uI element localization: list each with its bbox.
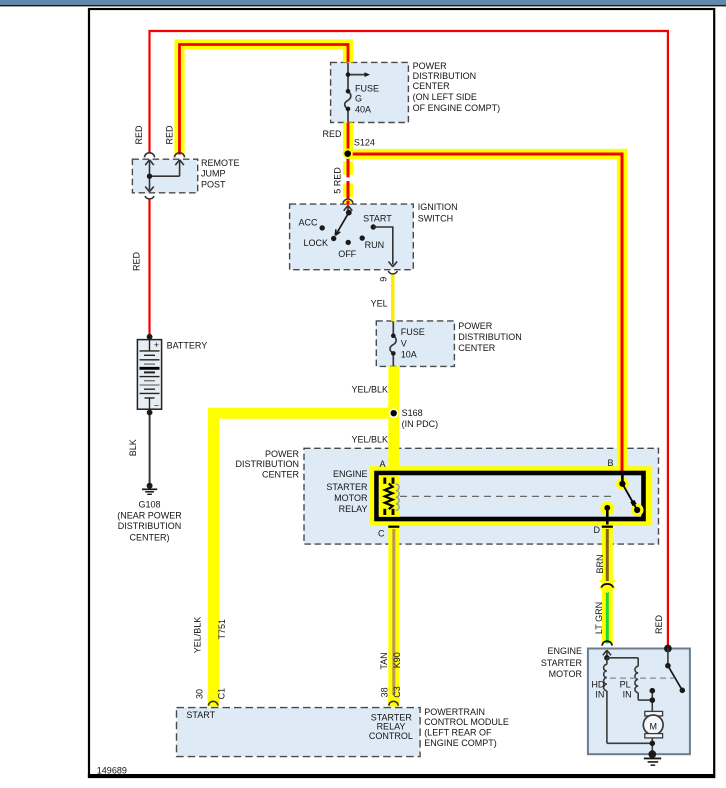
svg-text:HD: HD — [591, 680, 604, 690]
ignition switch connector entry — [343, 199, 353, 204]
label power distribution center (relay) — [235, 449, 299, 480]
power distribution center box (fuse G) — [331, 62, 409, 122]
svg-text:CENTER: CENTER — [413, 81, 451, 91]
wire RED highlighted: S124 across and down to relay pin B — [348, 154, 623, 467]
ignition switch START output wire — [373, 227, 393, 265]
svg-text:BLK: BLK — [128, 439, 138, 456]
svg-text:FUSE: FUSE — [355, 84, 379, 94]
svg-text:C3: C3 — [392, 686, 402, 698]
starter motor solenoid switch — [664, 645, 672, 653]
svg-text:G: G — [355, 94, 362, 104]
svg-text:RED: RED — [164, 125, 174, 145]
starter motor junction dots — [651, 691, 653, 712]
svg-text:ACC: ACC — [298, 218, 318, 228]
svg-text:IN: IN — [595, 690, 604, 700]
svg-text:+: + — [154, 340, 159, 350]
label fuse V 10A — [401, 327, 425, 359]
connector arc at PCM pin 38 — [387, 695, 400, 707]
svg-text:POWER: POWER — [413, 61, 448, 71]
svg-text:CENTER: CENTER — [458, 343, 496, 353]
starter motor internal dashed line — [610, 677, 674, 679]
svg-text:40A: 40A — [355, 104, 371, 114]
label powertrain control module — [424, 707, 509, 748]
svg-text:CENTER: CENTER — [262, 470, 300, 480]
top toolbar bar — [0, 0, 726, 6]
relay coil winding — [385, 478, 393, 516]
ignition switch connector exit pin 9 — [388, 271, 397, 274]
svg-text:5 RED: 5 RED — [332, 167, 342, 194]
wire BLK: battery to ground G108 — [149, 413, 151, 486]
label ground G108 — [117, 500, 182, 543]
engine starter motor relay body — [377, 473, 644, 519]
power distribution center box (fuse V) — [376, 321, 454, 367]
motor M — [645, 711, 663, 716]
ground G108 — [147, 483, 153, 489]
label power distribution center (fuse V) — [458, 321, 522, 353]
label power distribution center (fuse G) — [413, 61, 501, 113]
wire RED thin: remote jump post to starter motor switch (top run) — [150, 31, 668, 649]
label fuse G 40A — [355, 84, 379, 115]
svg-text:149689: 149689 — [97, 766, 127, 776]
starter motor ground — [648, 750, 656, 758]
svg-text:10A: 10A — [401, 349, 417, 359]
connector arc at starter motor entry — [602, 641, 612, 646]
svg-text:START: START — [363, 213, 392, 223]
svg-text:YEL/BLK: YEL/BLK — [351, 385, 388, 395]
svg-text:T751: T751 — [217, 619, 227, 640]
svg-text:ENGINE COMPT): ENGINE COMPT) — [424, 738, 497, 748]
svg-text:REMOTE: REMOTE — [201, 158, 240, 168]
svg-text:TAN: TAN — [379, 652, 389, 669]
ignition switch wiper arm — [346, 210, 352, 216]
relay internal dashed line — [400, 495, 612, 497]
svg-text:S124: S124 — [354, 138, 375, 148]
svg-text:(ON LEFT SIDE: (ON LEFT SIDE — [413, 92, 477, 102]
svg-text:C: C — [378, 529, 385, 539]
svg-text:OFF: OFF — [338, 249, 356, 259]
svg-text:M: M — [649, 722, 657, 732]
svg-text:9: 9 — [379, 277, 389, 282]
svg-text:V: V — [401, 338, 407, 348]
svg-text:(IN PDC): (IN PDC) — [402, 419, 439, 429]
svg-text:STARTER: STARTER — [541, 658, 583, 668]
svg-text:OF ENGINE COMPT): OF ENGINE COMPT) — [413, 103, 501, 113]
svg-text:PL: PL — [620, 680, 631, 690]
svg-text:POST: POST — [201, 180, 226, 190]
svg-text:YEL: YEL — [371, 299, 388, 309]
svg-text:D: D — [594, 525, 601, 535]
svg-text:ENGINE: ENGINE — [547, 646, 582, 656]
wire BRN / LT GRN: relay pin D to starter motor — [602, 525, 613, 644]
svg-text:LOCK: LOCK — [303, 238, 328, 248]
splice S168 — [389, 408, 399, 418]
svg-text:30: 30 — [194, 689, 204, 699]
svg-text:CENTER): CENTER) — [130, 533, 170, 543]
svg-text:A: A — [379, 459, 385, 469]
svg-text:B: B — [607, 458, 613, 468]
engine starter motor box — [588, 649, 690, 755]
svg-text:ENGINE: ENGINE — [333, 469, 368, 479]
label remote jump post — [201, 158, 240, 190]
ignition switch box — [290, 204, 414, 270]
wire RED: remote jump post to battery — [148, 200, 150, 337]
starter motor HD coil — [604, 658, 653, 744]
starter motor solenoid input arrow — [603, 650, 611, 658]
relay switch contact B side — [616, 478, 629, 491]
svg-text:DISTRIBUTION: DISTRIBUTION — [118, 521, 182, 531]
connector arc at PCM pin 30 — [207, 695, 220, 707]
fuse V 10A — [390, 321, 396, 366]
splice connector BRN to LT GRN — [599, 576, 616, 587]
svg-text:BRN: BRN — [595, 554, 605, 573]
label ignition switch — [418, 202, 458, 224]
engine starter motor relay outer yellow highlight — [370, 466, 652, 526]
svg-text:RELAY: RELAY — [377, 721, 406, 731]
svg-text:RED: RED — [134, 125, 144, 145]
relay coil yellow highlight patch — [379, 475, 400, 517]
svg-text:G108: G108 — [138, 500, 160, 510]
relay coil arcs — [396, 484, 399, 510]
svg-text:POWERTRAIN: POWERTRAIN — [424, 707, 485, 717]
label engine starter motor relay — [326, 469, 368, 514]
svg-text:(LEFT REAR OF: (LEFT REAR OF — [424, 728, 492, 738]
svg-text:CONTROL: CONTROL — [369, 731, 413, 741]
svg-text:RED: RED — [322, 129, 342, 139]
remote jump post connectors and bus — [145, 153, 155, 158]
relay pin C terminal bar — [388, 526, 399, 528]
svg-text:DISTRIBUTION: DISTRIBUTION — [458, 332, 522, 342]
wire YEL/BLK: fuse V down through S168 to relay pin A — [388, 366, 399, 467]
svg-text:−: − — [154, 400, 159, 410]
svg-text:K90: K90 — [392, 652, 402, 668]
svg-text:RELAY: RELAY — [339, 504, 368, 514]
svg-text:POWER: POWER — [265, 449, 300, 459]
svg-text:(NEAR POWER: (NEAR POWER — [117, 510, 182, 520]
svg-text:DISTRIBUTION: DISTRIBUTION — [413, 71, 477, 81]
ignition switch position contacts — [320, 225, 325, 230]
wire YEL/BLK: S168 branch left and down to PCM pin 30 — [214, 413, 394, 706]
svg-text:C1: C1 — [216, 688, 226, 700]
svg-text:YEL/BLK: YEL/BLK — [193, 617, 203, 654]
svg-text:RED: RED — [132, 252, 142, 272]
svg-text:38: 38 — [380, 687, 390, 697]
svg-text:IGNITION: IGNITION — [418, 202, 458, 212]
svg-text:LT GRN: LT GRN — [594, 602, 604, 634]
battery — [147, 334, 153, 340]
svg-text:DISTRIBUTION: DISTRIBUTION — [235, 459, 299, 469]
svg-text:JUMP: JUMP — [201, 169, 226, 179]
wire RED highlighted yellow: remote jump post up over to fuse G — [180, 45, 349, 155]
svg-text:MOTOR: MOTOR — [334, 493, 368, 503]
svg-text:S168: S168 — [402, 408, 423, 418]
remote jump post box — [132, 159, 197, 193]
svg-text:YEL/BLK: YEL/BLK — [351, 435, 388, 445]
powertrain control module box — [177, 708, 421, 757]
wire YEL: ignition switch to fuse V — [391, 274, 395, 322]
svg-text:POWER: POWER — [458, 321, 493, 331]
svg-text:START: START — [186, 710, 215, 720]
svg-text:FUSE: FUSE — [401, 327, 425, 337]
label starter relay control — [369, 712, 413, 741]
svg-text:IN: IN — [623, 690, 632, 700]
relay switch pin D stub — [600, 502, 614, 516]
fuse G 40A — [345, 63, 366, 122]
starter motor PL coil — [607, 658, 652, 700]
svg-text:MOTOR: MOTOR — [549, 669, 583, 679]
wire TAN K90: relay pin C to PCM pin 38 — [388, 525, 399, 707]
svg-text:SWITCH: SWITCH — [418, 214, 454, 224]
splice S124 — [343, 149, 353, 159]
label engine starter motor — [541, 646, 583, 679]
svg-text:RUN: RUN — [365, 240, 385, 250]
relay pin D terminal bar — [602, 526, 613, 528]
svg-text:CONTROL MODULE: CONTROL MODULE — [424, 717, 509, 727]
svg-text:BATTERY: BATTERY — [167, 340, 208, 350]
power distribution center box (relay) — [304, 448, 659, 544]
svg-text:STARTER: STARTER — [326, 482, 368, 492]
svg-text:RED: RED — [654, 615, 664, 635]
wire RED highlighted: fuse G to S124 — [343, 123, 353, 154]
wire 5 RED dashed: S124 down to ignition switch — [343, 159, 353, 205]
